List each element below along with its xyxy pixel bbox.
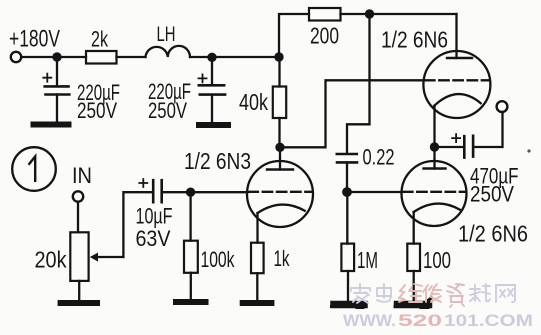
capacitor C4 470uF [435, 146, 465, 148]
node plate1 [275, 143, 284, 152]
terminal +180V input [11, 52, 21, 62]
svg-text:IN: IN [72, 163, 92, 188]
svg-text:1/2 6N3: 1/2 6N3 [184, 148, 251, 174]
resistor R-1k [251, 243, 264, 274]
node grid2 [342, 187, 352, 197]
cathode lead U1 [256, 213, 258, 243]
svg-text:WWW.: WWW. [343, 311, 396, 330]
svg-text:LH: LH [157, 22, 176, 46]
wire plate1 to top 6N6 grid [280, 80, 424, 147]
resistor R-2k [86, 51, 117, 64]
capacitor C2 220uF [199, 84, 224, 87]
resistor R-40k [278, 57, 280, 87]
svg-text:10µF: 10µF [136, 204, 173, 229]
svg-text:100k: 100k [201, 247, 236, 272]
ground 100k [176, 299, 206, 305]
resistor R-100k [189, 192, 191, 241]
svg-text:1k: 1k [274, 246, 291, 271]
wire grid2 down to 1M [346, 192, 348, 244]
svg-text:63V: 63V [136, 226, 171, 251]
svg-text:0.22: 0.22 [363, 145, 395, 170]
grid dashes U2a [425, 79, 489, 81]
ground 100 [398, 301, 429, 309]
ground C2 [199, 122, 228, 128]
ground 20k [61, 300, 97, 306]
wire LH to 40k top [190, 56, 279, 58]
wire node-B down [211, 57, 213, 85]
svg-text:520: 520 [398, 311, 442, 330]
wiper arrow 20k [97, 256, 124, 258]
wire 2k to LH [117, 56, 146, 58]
wire rail left [22, 56, 87, 58]
node rail-C [274, 52, 283, 61]
cathode arc U1 [258, 205, 305, 214]
watermark url [343, 311, 533, 330]
wire node-A down [56, 57, 58, 86]
svg-text:1/2 6N6: 1/2 6N6 [458, 221, 528, 247]
grid dashes U1 [249, 191, 312, 193]
cathode arc U2a [434, 94, 480, 106]
svg-text:250V: 250V [77, 98, 117, 123]
svg-text:40k: 40k [239, 89, 268, 115]
tube U2b 1/2 6N6 bottom [402, 161, 467, 226]
capacitor C1 220uF [45, 85, 69, 88]
plate bar U2b [424, 167, 446, 169]
node rail-A [52, 52, 61, 61]
cathode lead U2b [413, 212, 415, 244]
svg-text:101.COM: 101.COM [444, 311, 533, 330]
wire 200 to plate top 6N6 [341, 13, 457, 15]
wire grid2 to bottom 6N6 grid [347, 191, 402, 193]
wire C5 to grid node U1 [162, 191, 191, 193]
svg-text:250V: 250V [148, 98, 187, 123]
speck [527, 149, 530, 152]
op tube U2a 1/2 6N6 top [423, 51, 490, 118]
node grid1 [186, 188, 195, 197]
svg-text:2k: 2k [91, 27, 109, 52]
tube U1 1/2 6N3 [247, 161, 313, 227]
wire IN down [77, 202, 79, 232]
wire C3 to grid node [346, 162, 348, 192]
watermark chinese [351, 284, 515, 307]
cathode lead U2a [433, 106, 435, 147]
node rail-B [207, 53, 216, 62]
cathode arc U2b [414, 204, 460, 212]
circled figure number 1 [12, 147, 56, 191]
wire wiper to C5 [123, 192, 153, 257]
ground 1k [243, 300, 272, 306]
wire grid1 to U1 [191, 191, 248, 193]
ground C1 [34, 122, 69, 128]
node out [430, 142, 439, 151]
grid dashes U2b [403, 191, 465, 193]
capacitor C3 0.22 [337, 153, 357, 156]
svg-text:200: 200 [310, 23, 339, 49]
terminal IN [73, 191, 83, 201]
wire node-D down jog to C3 [347, 14, 370, 153]
svg-text:+180V: +180V [9, 26, 60, 53]
wire out to U2b plate [433, 147, 435, 169]
resistor R-200 [309, 8, 341, 21]
plate bar U2a [447, 57, 472, 59]
plate bar U1 [267, 168, 293, 170]
wire rail-C up to 200 row [279, 14, 309, 57]
plate lead U1 [279, 147, 281, 169]
svg-text:1/2 6N6: 1/2 6N6 [381, 27, 448, 53]
svg-text:1M: 1M [357, 247, 378, 273]
potentiometer R-20k [70, 232, 88, 281]
svg-text:250V: 250V [470, 182, 514, 207]
resistor R-1M [341, 244, 354, 271]
svg-text:20k: 20k [35, 247, 67, 273]
svg-text:100: 100 [423, 247, 451, 273]
node top-D [365, 9, 374, 18]
inductor LH [146, 46, 191, 57]
terminal output [497, 101, 508, 112]
resistor R-100 [407, 244, 420, 271]
ground 1M [334, 301, 364, 309]
plate lead U2a [455, 14, 457, 58]
capacitor C5 10uF [152, 180, 155, 202]
